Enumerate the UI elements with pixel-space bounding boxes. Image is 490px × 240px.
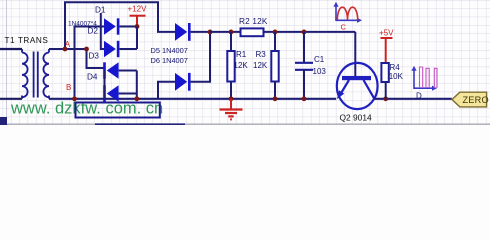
svg-text:B: B: [66, 83, 71, 92]
diode D1: [104, 18, 119, 34]
ground rail (secondary bottom along bottom): [49, 98, 336, 100]
+12V power port: [128, 5, 148, 27]
junction dot R3 bottom: [273, 96, 278, 101]
node A wire (secondary top to bridge): [49, 48, 87, 50]
svg-text:R2 12K: R2 12K: [239, 17, 268, 26]
wire D3/D4 cathode bus to rail: [104, 71, 106, 99]
transformer T1 secondary winding: [43, 49, 49, 99]
capacitor C1: [295, 63, 313, 70]
transistor Q2 base bar: [342, 76, 371, 80]
junction dot R1 bottom: [229, 96, 234, 101]
wire D6 cathode up to main node: [191, 32, 210, 82]
wire A down to D3: [87, 49, 104, 68]
wire R1 bottom lead: [230, 82, 232, 99]
junction dot A: [63, 47, 68, 52]
svg-text:T1 TRANS: T1 TRANS: [5, 36, 49, 45]
diode D4: [103, 85, 118, 101]
svg-text:D2: D2: [88, 26, 99, 35]
svg-text:D5 1N4007: D5 1N4007: [151, 46, 188, 55]
svg-text:10K: 10K: [389, 72, 404, 81]
transistor Q2 circle: [337, 63, 378, 109]
transformer T1 primary bottom lead: [0, 98, 22, 100]
wire D1 cathode to +12V node: [119, 26, 137, 28]
+5V power port: [379, 29, 394, 64]
transformer T1 core: [33, 52, 35, 98]
wire R4 bottom lead: [385, 82, 387, 99]
svg-text:ZERO: ZERO: [463, 95, 489, 105]
junction dot B: [72, 96, 77, 101]
wire D2 cathode: [119, 48, 137, 50]
diode D3: [103, 62, 118, 78]
svg-text:R4: R4: [390, 63, 401, 72]
resistor R1: [227, 51, 234, 82]
resistor R3: [271, 51, 278, 82]
wire D3/D4 anode bus to rail: [136, 71, 138, 99]
main wire to R2: [210, 31, 241, 33]
svg-text:R1: R1: [236, 50, 247, 59]
junction dot D5/D6: [208, 30, 213, 35]
wire R1 top lead: [230, 32, 232, 51]
svg-text:D4: D4: [87, 72, 98, 81]
svg-text:103: 103: [313, 67, 327, 76]
transistor Q2 collector: [364, 80, 374, 99]
wire D3 anode right: [119, 70, 137, 72]
svg-text:D1: D1: [95, 6, 106, 15]
diode D5: [175, 23, 191, 41]
transformer T1 primary winding: [22, 49, 28, 99]
svg-text:D: D: [416, 92, 422, 101]
svg-text:D6 1N4007: D6 1N4007: [151, 56, 188, 65]
diode D6: [175, 73, 191, 91]
wire R2 right: [264, 31, 356, 33]
diode D2: [104, 41, 119, 57]
junction dot R4 bottom: [383, 96, 388, 101]
ZERO net flag: [452, 92, 489, 107]
transformer T1 primary top lead: [0, 48, 22, 50]
wire A up-and-over to D5: [65, 2, 175, 49]
svg-text:Q2 9014: Q2 9014: [340, 113, 372, 123]
wire C1 top lead: [303, 32, 305, 62]
junction dot C1 bottom: [302, 96, 307, 101]
svg-text:R3: R3: [256, 50, 267, 59]
svg-text:12K: 12K: [253, 61, 268, 70]
svg-text:C1: C1: [314, 55, 325, 64]
wire main to base: [354, 32, 356, 76]
junction dot C1 top: [302, 30, 307, 35]
wire anode bus D1-D2: [101, 13, 104, 49]
junction dot +12V: [135, 24, 140, 29]
junction dot bridge-rail: [134, 96, 139, 101]
resistor R4: [381, 63, 388, 82]
waveform icon D: [411, 66, 437, 101]
junction dot R3 top: [273, 30, 278, 35]
svg-text:D3: D3: [89, 51, 100, 60]
svg-text:+5V: +5V: [379, 29, 394, 38]
svg-text:C: C: [341, 23, 347, 32]
output wire collector to ZERO: [375, 98, 452, 100]
bottom-left corner block: [0, 117, 7, 125]
wire D6 feed from rail: [158, 82, 175, 99]
resistor R2: [241, 28, 264, 36]
junction dot R1 top: [229, 30, 234, 35]
watermark selection rectangle: [76, 103, 160, 118]
wire B riser to bridge: [75, 27, 105, 99]
transistor Q2 emitter with arrow: [339, 80, 349, 97]
wire +12V bus down to D2: [136, 27, 138, 50]
junction dot A2: [84, 47, 89, 52]
svg-text:+12V: +12V: [128, 5, 148, 14]
ground symbol: [220, 99, 243, 120]
wire D4 anode right: [119, 93, 137, 95]
waveform icon C: [333, 2, 362, 32]
sheet border line left: [6, 0, 8, 125]
svg-text:12K: 12K: [234, 61, 249, 70]
wire D5 cathode to main node: [191, 31, 210, 33]
wire R3 top lead: [274, 32, 276, 51]
bottom edge line: [0, 123, 490, 125]
wire C1 bottom lead: [303, 70, 305, 99]
wire R3 bottom lead: [274, 82, 276, 99]
